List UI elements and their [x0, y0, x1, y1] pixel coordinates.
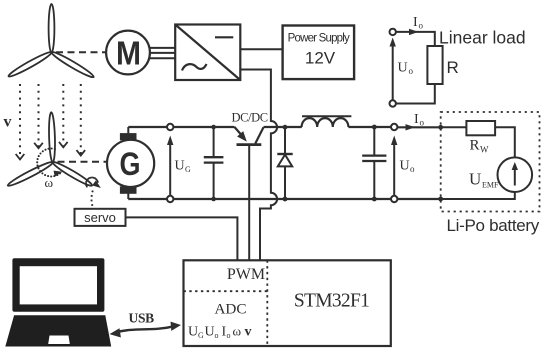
wire top rail: [128, 126, 234, 128]
generator terminal block bottom: [120, 186, 137, 193]
svg-text:Linear load: Linear load: [439, 28, 526, 48]
svg-text:R: R: [470, 138, 480, 154]
svg-text:I: I: [414, 112, 419, 127]
inductor L1: [302, 116, 352, 127]
capacitor C1: [204, 127, 224, 199]
wind turbine T2: [7, 112, 94, 188]
svg-text:servo: servo: [84, 210, 116, 225]
svg-text:U: U: [469, 170, 481, 189]
node linear-load - terminal: [390, 100, 396, 106]
wire linear load top: [396, 32, 435, 46]
svg-text:PWM: PWM: [227, 266, 265, 283]
voltage arrow UG: [167, 136, 173, 196]
node Uo-: [391, 196, 397, 202]
svg-text:o: o: [410, 164, 415, 174]
divider PWM/ADC (dotted): [184, 290, 268, 292]
wire G+ to top rail: [127, 127, 129, 134]
svg-text:ω: ω: [233, 324, 242, 339]
node UG+: [167, 124, 173, 130]
wire shaft T1 to motor (dashed): [56, 51, 106, 53]
capacitor C2: [362, 127, 386, 199]
voltage arrow Uo (linear load): [390, 38, 396, 101]
AC/DC converter U2: [175, 25, 240, 81]
svg-text:o: o: [215, 331, 219, 340]
svg-text:o: o: [227, 331, 231, 340]
svg-text:v: v: [4, 114, 12, 131]
svg-text:o: o: [409, 66, 414, 76]
resistor RW: [466, 121, 495, 135]
svg-text:12V: 12V: [305, 49, 336, 68]
transistor Q1 (PNP switch): [235, 127, 264, 145]
diode D1: [277, 127, 292, 199]
wire servo to STM32F1: [126, 217, 238, 260]
divider PWM/rest (dotted): [266, 260, 268, 346]
voltage arrow Uo (output): [391, 136, 397, 196]
junction C1 bottom: [211, 197, 216, 202]
junction diode top: [283, 125, 288, 130]
Li-Po battery box: [441, 112, 540, 212]
resistor R (linear load): [427, 46, 442, 84]
current arrow Io (linear load): [409, 29, 419, 35]
wire G- to bottom rail: [127, 193, 129, 199]
svg-text:I: I: [413, 15, 418, 30]
wire shaft T2 to generator (dashed): [58, 161, 107, 163]
svg-text:U: U: [400, 159, 410, 174]
generator terminal block top: [120, 133, 137, 140]
svg-text:U: U: [398, 61, 408, 76]
svg-text:U: U: [205, 325, 215, 340]
junction C2 top: [372, 125, 377, 130]
junction battery -: [438, 197, 443, 202]
svg-text:M: M: [116, 35, 141, 72]
wind turbine T1: [7, 4, 95, 79]
servo box: [75, 209, 126, 226]
junction C2 bottom: [372, 197, 377, 202]
STM32F1 box: [184, 260, 391, 346]
svg-text:STM32F1: STM32F1: [294, 291, 369, 312]
svg-text:v: v: [245, 325, 252, 340]
junction C1 top: [211, 125, 216, 130]
wind arrow 4: [77, 84, 86, 156]
wire RW to UEMF: [495, 127, 515, 157]
node Uo+: [391, 124, 397, 130]
svg-text:ADC: ADC: [214, 301, 246, 318]
node UG-: [167, 196, 173, 202]
svg-text:R: R: [447, 58, 459, 77]
wire 12V supply line (down with hops over rails): [240, 70, 277, 261]
node linear-load + terminal: [390, 29, 396, 35]
USB link arrow: [110, 322, 182, 338]
laptop PC: [5, 258, 111, 346]
svg-text:G: G: [198, 331, 204, 340]
wire converter to power supply: [240, 48, 282, 50]
svg-text:DC/DC: DC/DC: [232, 111, 268, 125]
svg-text:U: U: [188, 325, 198, 340]
svg-text:Power Supply: Power Supply: [288, 33, 350, 45]
motor M: [106, 31, 150, 75]
wire top rail after Q1: [264, 126, 302, 128]
wire top rail after L1: [348, 126, 390, 128]
svg-text:Li-Po battery: Li-Po battery: [447, 216, 540, 235]
svg-text:G: G: [120, 146, 141, 182]
wire battery bottom: [443, 192, 515, 199]
wire Q1 base to PWM: [248, 146, 250, 260]
power supply PS1: [283, 26, 355, 80]
labels ADC inputs UG Uo Io w v: [188, 324, 252, 341]
svg-text:USB: USB: [129, 311, 155, 326]
svg-text:G: G: [185, 165, 191, 174]
junction diode bottom: [283, 197, 288, 202]
wire bottom rail: [128, 198, 440, 200]
svg-text:o: o: [419, 21, 424, 31]
wind arrow 3: [59, 84, 68, 147]
wire output to battery: [397, 126, 440, 128]
wind arrow 2: [34, 84, 43, 148]
svg-text:EMF: EMF: [482, 181, 499, 190]
servo pitch link (dotted hook to blade): [85, 177, 101, 209]
current arrow Io (output): [406, 124, 416, 130]
rotation arrow omega: [36, 147, 62, 177]
source UEMF: [498, 157, 533, 192]
svg-text:U: U: [175, 159, 185, 174]
generator G: [107, 140, 154, 187]
junction battery +: [438, 125, 443, 130]
wind arrow 1: [16, 84, 25, 159]
wire battery top: [441, 126, 467, 128]
svg-text:W: W: [480, 145, 489, 155]
svg-text:ω: ω: [45, 175, 54, 190]
wire 3-phase motor to converter: [150, 48, 175, 58]
wire linear load bottom: [396, 84, 435, 104]
svg-text:o: o: [420, 118, 425, 128]
